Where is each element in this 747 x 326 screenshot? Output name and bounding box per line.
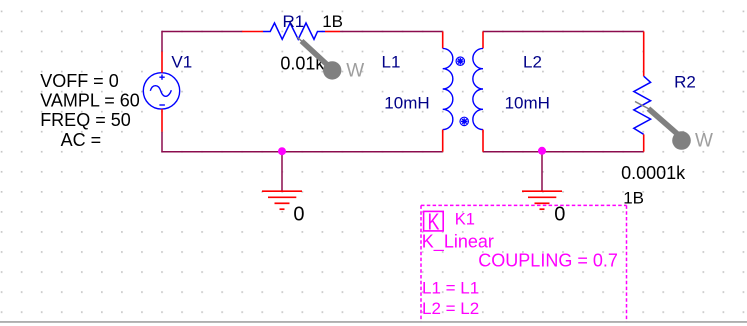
power marker W at R2: [635, 102, 691, 150]
label W at R2: [695, 131, 713, 152]
ground 2: [522, 191, 562, 209]
label 0.0001k: [621, 163, 686, 183]
pin R2 bottom: [643, 134, 645, 151]
svg-text:R1: R1: [283, 12, 305, 31]
label 1B at R2: [623, 188, 644, 207]
coupling box K1 dashed border: [421, 205, 627, 322]
pin V1 bottom: [161, 109, 163, 132]
label K1: [455, 211, 475, 229]
svg-text:AC =: AC =: [61, 130, 102, 150]
wire ground 2 vertical: [541, 152, 543, 191]
label VOFF: [40, 71, 119, 91]
svg-text:0: 0: [293, 204, 304, 226]
label 0 at ground 1: [293, 204, 304, 226]
wire bottom-left horizontal V1 to L1: [161, 151, 442, 153]
phase dot top: [456, 57, 464, 65]
pin R2 top: [643, 32, 645, 77]
pin R1 left: [242, 31, 263, 33]
pin L2 bottom: [482, 130, 484, 152]
wire top-left vertical down to V1: [161, 31, 163, 52]
svg-text:R2: R2: [674, 73, 696, 92]
svg-text:FREQ = 50: FREQ = 50: [40, 110, 131, 130]
label 0.01k: [280, 54, 325, 74]
label FREQ: [40, 110, 131, 130]
voltage source V1: [143, 73, 179, 109]
phase dot bottom: [460, 117, 468, 125]
pin L2 top: [482, 32, 484, 49]
svg-text:L1: L1: [382, 53, 401, 72]
inductor L2: [473, 48, 483, 129]
label 10mH at L2: [505, 93, 550, 112]
label R2: [674, 73, 696, 92]
svg-text:1B: 1B: [623, 188, 644, 207]
svg-text:W: W: [346, 61, 364, 82]
pin R1 right: [325, 31, 340, 33]
svg-text:V1: V1: [171, 53, 192, 72]
svg-text:COUPLING = 0.7: COUPLING = 0.7: [478, 250, 618, 270]
resistor R1: [263, 23, 325, 39]
svg-text:L1 = L1: L1 = L1: [422, 279, 479, 298]
svg-text:1B: 1B: [322, 12, 343, 31]
label 1B at R1: [322, 12, 343, 31]
wire V1 bottom vertical: [161, 132, 163, 152]
svg-text:L2 = L2: L2 = L2: [422, 299, 479, 318]
svg-text:L2: L2: [523, 53, 542, 72]
wire bottom-right horizontal L2 to R2: [483, 151, 644, 153]
wire top-right horizontal L2 to R2: [483, 31, 644, 33]
K symbol box: [424, 209, 444, 235]
svg-text:W: W: [695, 131, 713, 152]
svg-text:10mH: 10mH: [384, 93, 429, 112]
bottom separator line: [0, 321, 747, 323]
resistor R2: [634, 76, 651, 134]
wire ground 1 vertical: [281, 152, 283, 191]
svg-text:VAMPL = 60: VAMPL = 60: [40, 91, 140, 111]
wire top-left horizontal V1 to R1: [162, 31, 242, 33]
label VAMPL: [40, 91, 140, 111]
junction node 1: [278, 147, 286, 155]
label K_Linear: [422, 231, 494, 252]
label 10mH at L1: [384, 93, 429, 112]
svg-text:VOFF = 0: VOFF = 0: [40, 71, 119, 91]
label W at R1: [346, 61, 364, 82]
label L1 = L1: [422, 279, 479, 298]
label L1: [382, 53, 401, 72]
pin V1 top: [161, 52, 163, 73]
label R1: [283, 12, 305, 31]
label V1: [171, 53, 192, 72]
ground 1: [262, 191, 302, 209]
inductor L1: [443, 48, 453, 129]
pin L1 bottom: [442, 130, 444, 152]
svg-text:0.0001k: 0.0001k: [621, 163, 686, 183]
wire R1 to L1 horizontal: [340, 31, 443, 33]
label AC: [61, 130, 102, 150]
svg-text:K1: K1: [455, 211, 475, 229]
svg-text:K_Linear: K_Linear: [422, 231, 494, 252]
label 0 at ground 2: [554, 203, 565, 225]
label L2 = L2: [422, 299, 479, 318]
pin L1 top: [442, 32, 444, 49]
power marker W at R1: [297, 37, 341, 79]
junction node 2: [538, 147, 546, 155]
svg-text:10mH: 10mH: [505, 93, 550, 112]
svg-text:0: 0: [554, 203, 565, 225]
label COUPLING: [478, 250, 618, 270]
label L2: [523, 53, 542, 72]
